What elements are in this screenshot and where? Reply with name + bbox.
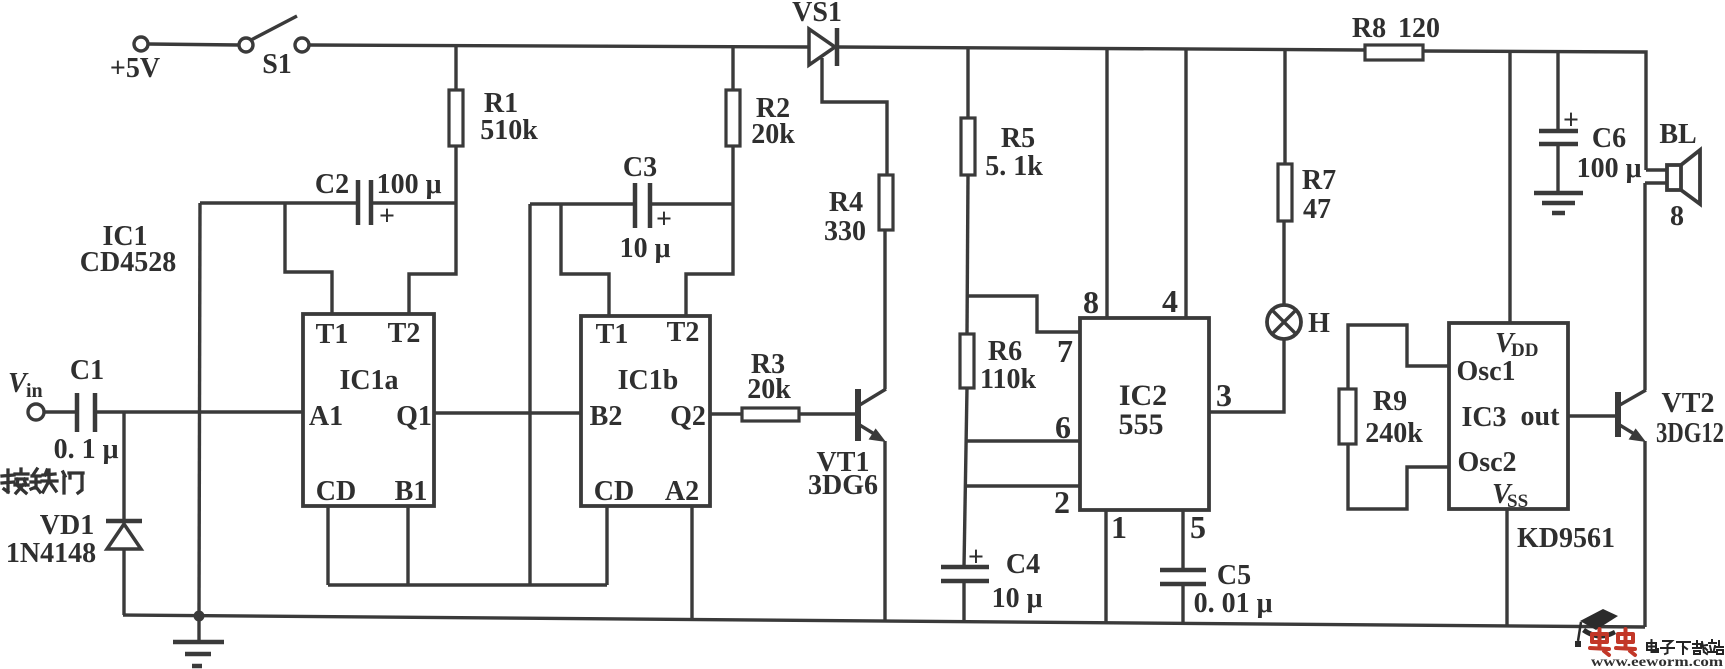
transistor VT2 3DG12 [1618,388,1724,449]
svg-text:10 μ: 10 μ [992,583,1043,614]
wire R7 to rail [1283,50,1286,164]
wire S1 to VS1 anode (top rail left) [309,45,809,47]
capacitor C6 100u [1539,105,1642,184]
wire R8 to top-right corner [1423,51,1646,170]
wire C5 bottom [1181,584,1184,623]
svg-text:CD4528: CD4528 [80,247,176,278]
wire R6 bottom to C4 [964,388,967,567]
svg-text:C3: C3 [623,152,657,183]
switch S1 [239,16,309,80]
watermark chongchong red text [1590,629,1635,655]
svg-text:R7: R7 [1302,165,1336,196]
svg-text:IC3: IC3 [1461,402,1506,433]
svg-text:20k: 20k [747,374,791,405]
dian [1647,640,1658,652]
wire C4 bottom [962,581,965,622]
wire IC1b T2 pin [686,204,733,316]
svg-text:S1: S1 [262,49,292,80]
IC U1b: IC1b monostable box [581,316,710,507]
wire ground branch (C2 left to bottom rail) [199,203,200,616]
node Vin terminal [8,368,44,420]
wire Q1 to B2 [434,411,581,414]
bottom rail [123,615,1645,627]
wire IC1b A2 pin to bottom rail [690,506,693,620]
resistor R7 47 [1278,164,1336,225]
svg-text:5: 5 [1190,509,1206,545]
watermark graduation cap [1575,609,1618,647]
transistor VT1 3DG6 [808,389,886,501]
svg-text:240k: 240k [1365,418,1423,449]
zi [1661,641,1674,654]
svg-text:6: 6 [1055,409,1071,445]
svg-text:1: 1 [1111,509,1127,545]
svg-text:VD1: VD1 [40,510,94,541]
svg-text:KD9561: KD9561 [1517,523,1615,554]
IC U1a: IC1a monostable box [303,314,434,507]
+5V terminal [110,37,160,84]
wire VT1 collector to R4 [883,230,886,389]
resistor R8 120 [1352,13,1440,60]
svg-text:out: out [1521,401,1561,432]
wire R5 top [966,48,969,118]
svg-text:8: 8 [1670,201,1684,232]
wire C2 right [371,201,456,204]
wire CD/B1 bus [328,583,607,586]
svg-text:H: H [1308,308,1330,339]
svg-text:510k: 510k [480,115,538,146]
svg-text:Osc2: Osc2 [1457,447,1516,478]
svg-text:Q2: Q2 [670,401,706,432]
svg-text:555: 555 [1119,408,1164,441]
ground (main) [173,616,224,666]
svg-text:2: 2 [1054,484,1070,520]
wire IC1a T2 pin [409,203,456,314]
wire VDD to rail [1508,51,1511,324]
wire C6 to ground [1556,144,1559,193]
svg-text:Osc1: Osc1 [1456,356,1515,387]
svg-text:A1: A1 [309,401,343,432]
svg-text:T1: T1 [596,319,629,350]
svg-text:100 μ: 100 μ [1577,153,1642,184]
svg-text:www.eeworm.com: www.eeworm.com [1591,654,1724,669]
char tie [31,469,57,492]
svg-text:R5: R5 [1001,123,1035,154]
svg-text:in: in [26,380,43,402]
capacitor C3 10u [620,152,672,264]
lamp H [1267,305,1330,339]
wire C3 right [650,202,733,205]
zai [1693,641,1707,654]
wire R3 to VT1 base [799,412,856,415]
wire C3 left [530,202,635,205]
wire R1 top [454,45,457,90]
zhan [1708,640,1723,654]
wire node to pin2 [967,484,1080,487]
svg-text:1N4148: 1N4148 [6,538,96,569]
wire C6 to rail [1556,51,1559,131]
wire VT2 collector to speaker [1643,183,1646,390]
wire lamp to R7 [1282,221,1285,305]
svg-text:0. 1 μ: 0. 1 μ [54,434,119,465]
svg-text:110k: 110k [980,364,1036,395]
svg-text:VS1: VS1 [792,0,842,28]
svg-text:Q1: Q1 [396,401,432,432]
resistor R1 510k [449,88,538,146]
resistor R6 110k [960,334,1036,395]
wire VSS to bottom rail [1505,509,1508,626]
wire C1 to A1 [95,410,303,413]
svg-text:VT2: VT2 [1662,388,1715,419]
wire IC1b T1 pin [561,204,609,316]
svg-text:R6: R6 [988,336,1022,367]
wire IC1a T1 pin [285,203,332,314]
IC U2: IC2 555 timer box [1080,318,1209,510]
thyristor VS1 [792,0,842,66]
svg-text:T1: T1 [316,319,349,350]
resistor R5 5.1k [961,118,1043,182]
wire VT1 emitter to bottom rail [883,441,886,621]
svg-text:4: 4 [1162,283,1178,319]
svg-text:B2: B2 [590,401,623,432]
svg-text:R4: R4 [829,187,863,218]
diode VD1 1N4148 [6,412,142,615]
svg-text:20k: 20k [751,119,795,150]
wire node to pin7 [968,296,1080,332]
wire R9 bottom to Osc2 [1348,444,1449,509]
wire IC1a CD pin [326,506,329,585]
wire IC1b CD pin [605,506,608,585]
svg-text:3: 3 [1216,377,1232,413]
svg-text:100 μ: 100 μ [377,169,442,200]
svg-text:SS: SS [1507,491,1528,512]
svg-text:B1: B1 [395,476,428,507]
svg-text:T2: T2 [667,317,700,348]
capacitor C2 100u [315,169,442,232]
xia [1677,642,1690,654]
svg-text:+: + [379,201,395,232]
svg-text:C2: C2 [315,169,349,200]
svg-text:+5V: +5V [110,53,160,84]
wire R1 bottom to C2 node [454,146,457,203]
label jie-tie-men (connect iron door) [2,469,83,493]
svg-text:5. 1k: 5. 1k [985,151,1043,182]
svg-text:CD: CD [594,476,634,507]
svg-text:47: 47 [1303,194,1331,225]
label IC1 [80,221,176,278]
char jie [2,469,28,493]
ground (C6) [1534,193,1583,213]
wire VS1 cathode to R8 (top rail mid) [838,47,1365,50]
wire Q2 to R3 [710,412,742,415]
svg-text:10 μ: 10 μ [620,233,671,264]
svg-text:8: 8 [1083,284,1099,320]
speaker BL [1645,119,1700,232]
wire C3 left to CD/B1 bus [528,204,531,585]
svg-text:120: 120 [1398,13,1440,44]
wire R2 top [731,46,734,90]
wire pin3 to lamp [1209,339,1284,412]
wire VT2 emitter to bottom rail [1643,441,1646,627]
resistor R4 330 [824,175,893,247]
wire pin8 to rail [1105,49,1108,319]
svg-text:7: 7 [1057,333,1073,369]
svg-text:+: + [1563,105,1579,136]
svg-text:C1: C1 [70,355,104,386]
svg-text:C5: C5 [1217,560,1251,591]
svg-text:T2: T2 [388,318,421,349]
wire Vin to C1 [44,410,77,413]
svg-text:330: 330 [824,216,866,247]
capacitor C1 0.1u [54,355,119,465]
wire out to VT2 base [1568,414,1616,417]
wire R9 top to Osc1 [1348,325,1449,389]
wire node to pin6 [967,439,1080,442]
wire IC1a B1 pin [406,506,409,585]
wire pin4 to rail [1184,49,1187,319]
svg-text:+: + [656,204,672,235]
svg-text:CD: CD [316,476,356,507]
svg-text:3DG6: 3DG6 [808,470,878,501]
svg-text:BL: BL [1659,119,1696,150]
wire pin1 to bottom rail [1104,510,1107,623]
svg-text:R9: R9 [1373,386,1407,417]
junction ground node [194,611,205,622]
resistor R3 20k [742,349,799,421]
wire R5 bottom to R6 top [967,175,968,334]
svg-text:A2: A2 [665,476,699,507]
resistor R2 20k [726,90,795,150]
wire R2 bottom to C3 node [731,146,734,204]
svg-text:C6: C6 [1592,123,1626,154]
svg-text:3DG12: 3DG12 [1656,418,1724,449]
svg-text:0. 01 μ: 0. 01 μ [1194,588,1273,619]
wire +5V to S1 [148,44,239,45]
svg-text:IC1b: IC1b [618,365,679,396]
watermark site name dianzixiazaizhan [1647,640,1723,654]
capacitor C5 0.01u [1160,560,1273,619]
svg-text:C4: C4 [1006,549,1040,580]
svg-text:R8: R8 [1352,13,1386,44]
svg-text:+: + [968,542,984,573]
capacitor C4 10u [941,542,1043,614]
resistor R9 240k [1339,386,1423,449]
wire pin5 to C5 [1181,510,1184,570]
IC U3: IC3 KD9561 box [1449,323,1615,554]
svg-text:IC1a: IC1a [339,365,398,396]
wire R4 top to VS1 gate [822,58,887,175]
wire C2 left [200,201,358,204]
char men [63,472,83,493]
